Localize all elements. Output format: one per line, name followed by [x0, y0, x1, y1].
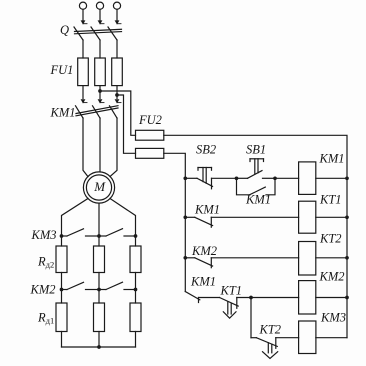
terminal L1	[79, 2, 86, 9]
fuse FU1 pole 2	[95, 58, 106, 86]
wire row4 to coil KM2	[237, 297, 299, 299]
node KM3 rail 3	[134, 234, 138, 238]
svg-text:KT1: KT1	[220, 284, 243, 298]
svg-text:SB2: SB2	[196, 143, 216, 157]
contactor KM1 pole 1 arrow	[81, 99, 87, 103]
node row4 right	[345, 296, 349, 300]
wire Rd2 to KM2 rail 2	[98, 273, 100, 290]
contact KM3 a	[62, 229, 100, 236]
node SB1 left	[235, 176, 239, 180]
wire row5 to coil KM3	[276, 337, 299, 339]
node row3 right	[345, 256, 349, 260]
node KM3 rail 1	[60, 234, 64, 238]
contactor KM1 pole 2 blade	[93, 106, 101, 118]
node row4 tap	[249, 296, 253, 300]
svg-text:KM1: KM1	[194, 203, 220, 217]
node row1 left	[183, 176, 187, 180]
wire row3 to coil KT2	[211, 257, 298, 259]
svg-text:FU2: FU2	[138, 113, 162, 127]
contactor KM1 pole 1 blade	[76, 106, 84, 118]
wire row4 to KT1 contact	[199, 297, 220, 299]
wire KM1 to motor phase 2	[99, 118, 101, 172]
wire Rd2 to KM2 rail 1	[61, 273, 63, 290]
contact KM1 aux row2	[185, 217, 212, 227]
motor M	[83, 172, 114, 203]
wire KM1 to motor phase 1	[83, 118, 88, 177]
contactor KM1 pole 3 arrow	[115, 99, 121, 103]
contactor KM1 pole 3 blade	[110, 106, 118, 118]
wire rotor phase 1	[62, 199, 89, 237]
wire coil KT2 to rail	[316, 257, 347, 259]
button SB2	[197, 168, 213, 189]
fuse FU1 pole 1	[78, 58, 89, 86]
wire row2 to coil KT1	[211, 216, 298, 218]
switch Q pole 2 blade	[91, 27, 100, 40]
wire L3 tap to FU2 lower	[117, 95, 136, 153]
wire SB1 to node	[263, 177, 276, 179]
wire coil KM1 to rail	[316, 177, 347, 179]
wire Rd1 to star bus 3	[135, 332, 137, 348]
coil KT2	[299, 242, 316, 276]
resistor Rd1 phase 3	[130, 303, 141, 332]
wire coil KT1 to rail	[316, 216, 347, 218]
button SB1	[248, 159, 264, 179]
resistor Rd1 phase 1	[56, 303, 67, 332]
wire Rd2 to KM2 rail 3	[135, 273, 137, 290]
fuse FU2 upper	[136, 130, 164, 140]
wire to SB1	[237, 177, 248, 179]
switch Q pole 3 blade	[108, 27, 117, 40]
wire L3 terminal to Q	[116, 9, 118, 20]
contact KM1 self-hold branch	[237, 178, 276, 195]
wire SB2 to SB1	[212, 177, 237, 179]
node star point	[97, 345, 101, 349]
svg-text:KM2: KM2	[319, 270, 345, 284]
node KM3 rail 2	[97, 234, 101, 238]
wire KM2 to Rd1 rail 3	[135, 290, 137, 304]
switch Q pole 1 arrow	[81, 20, 87, 24]
wire Q to FU1 pole 3	[116, 40, 118, 58]
node tap L3 control	[115, 93, 119, 97]
svg-text:KT2: KT2	[259, 323, 282, 337]
wire FU2 lower to left rail	[164, 153, 186, 291]
contact KM2 aux row3	[185, 258, 212, 268]
wire KM2 to Rd1 rail 1	[61, 290, 63, 304]
fuse FU2 lower	[136, 148, 164, 158]
svg-text:Rд2: Rд2	[37, 255, 54, 270]
svg-text:KT2: KT2	[319, 232, 342, 246]
wire L1 terminal to Q	[82, 9, 84, 20]
svg-text:KM3: KM3	[320, 311, 346, 325]
node SB1 right	[273, 176, 277, 180]
wire coil KM3 to rail	[316, 337, 347, 339]
wire Rd1 to star bus 1	[61, 332, 63, 348]
wire L2 tap to FU2 upper	[100, 91, 136, 135]
coil KM1	[299, 162, 316, 195]
coil KM2	[299, 281, 316, 314]
contact KM2 a	[62, 282, 100, 289]
node row2 right	[345, 215, 349, 219]
resistor Rd2 phase 1	[56, 246, 67, 273]
svg-text:FU1: FU1	[50, 63, 74, 77]
wire to KT2 contact	[251, 337, 256, 339]
node row2 left	[183, 215, 187, 219]
wire Rd1 to star bus 2	[98, 332, 100, 348]
wire FU1 to KM1 pole 2	[99, 86, 101, 99]
wire coil KM2 to rail	[316, 297, 347, 299]
node row3 left	[183, 256, 187, 260]
svg-text:KM2: KM2	[30, 283, 56, 297]
coil KT1	[299, 201, 316, 233]
wire Q to FU1 pole 1	[82, 40, 84, 58]
switch Q linkage bar	[75, 29, 122, 34]
contactor KM1 pole 2 arrow	[98, 99, 104, 103]
svg-text:SB1: SB1	[246, 143, 266, 157]
wire KM2 to Rd1 rail 2	[98, 290, 100, 304]
node KM2 rail 2	[97, 288, 101, 292]
contactor KM1 linkage bar	[76, 106, 118, 116]
wire FU1 to KM1 pole 3	[116, 86, 118, 99]
contact KT2 timed row5	[256, 338, 277, 359]
wire rotor phase 2	[98, 203, 100, 236]
fuse FU1 pole 3	[112, 58, 123, 86]
node KM2 rail 1	[60, 288, 64, 292]
wire row4 tap down to row5	[250, 298, 252, 338]
wire KM3 to Rd2 rail 1	[61, 236, 63, 246]
wire KM1 to motor phase 3	[110, 118, 117, 177]
star point bus	[62, 346, 136, 348]
svg-text:Rд1: Rд1	[37, 311, 54, 326]
switch Q pole 2 arrow	[98, 20, 104, 24]
wire rotor phase 3	[110, 199, 136, 237]
contact KM2 b	[99, 282, 136, 289]
wire FU1 to KM1 pole 1	[82, 86, 84, 99]
resistor Rd2 phase 3	[130, 246, 141, 273]
svg-text:KM1: KM1	[319, 152, 345, 166]
svg-text:KM1: KM1	[50, 106, 76, 120]
wire to coil KM1	[275, 177, 299, 179]
wire L2 terminal to Q	[99, 9, 101, 20]
terminal L2	[96, 2, 103, 9]
svg-text:KM2: KM2	[191, 244, 217, 258]
resistor Rd1 phase 2	[94, 303, 105, 332]
contact KM3 b	[99, 229, 136, 236]
svg-text:Q: Q	[60, 23, 69, 37]
node KM2 rail 3	[134, 288, 138, 292]
svg-text:KT1: KT1	[319, 193, 342, 207]
svg-text:KM3: KM3	[31, 228, 57, 242]
switch Q pole 3 arrow	[115, 20, 121, 24]
wire Q to FU1 pole 2	[99, 40, 101, 58]
node tap L2 control	[98, 89, 102, 93]
coil KM3	[299, 321, 316, 354]
contact KT1 timed row4	[220, 298, 239, 319]
wire FU2 upper to right rail	[164, 135, 347, 337]
wire KM3 to Rd2 rail 2	[98, 236, 100, 246]
terminal L3	[113, 2, 120, 9]
contact KM1 aux row4	[185, 292, 200, 303]
node row1 right	[345, 176, 349, 180]
svg-text:KM1: KM1	[190, 275, 216, 289]
switch Q pole 1 blade	[74, 27, 83, 40]
wire KM3 to Rd2 rail 3	[135, 236, 137, 246]
wire rail to SB2	[185, 177, 197, 179]
svg-text:M: M	[93, 179, 106, 194]
svg-text:KM1: KM1	[245, 193, 271, 207]
resistor Rd2 phase 2	[94, 246, 105, 273]
